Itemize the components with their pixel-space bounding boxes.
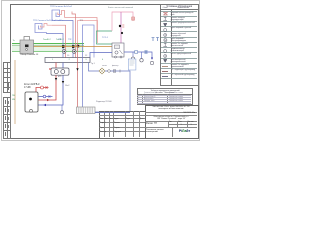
svg-text:M: M <box>164 40 166 42</box>
